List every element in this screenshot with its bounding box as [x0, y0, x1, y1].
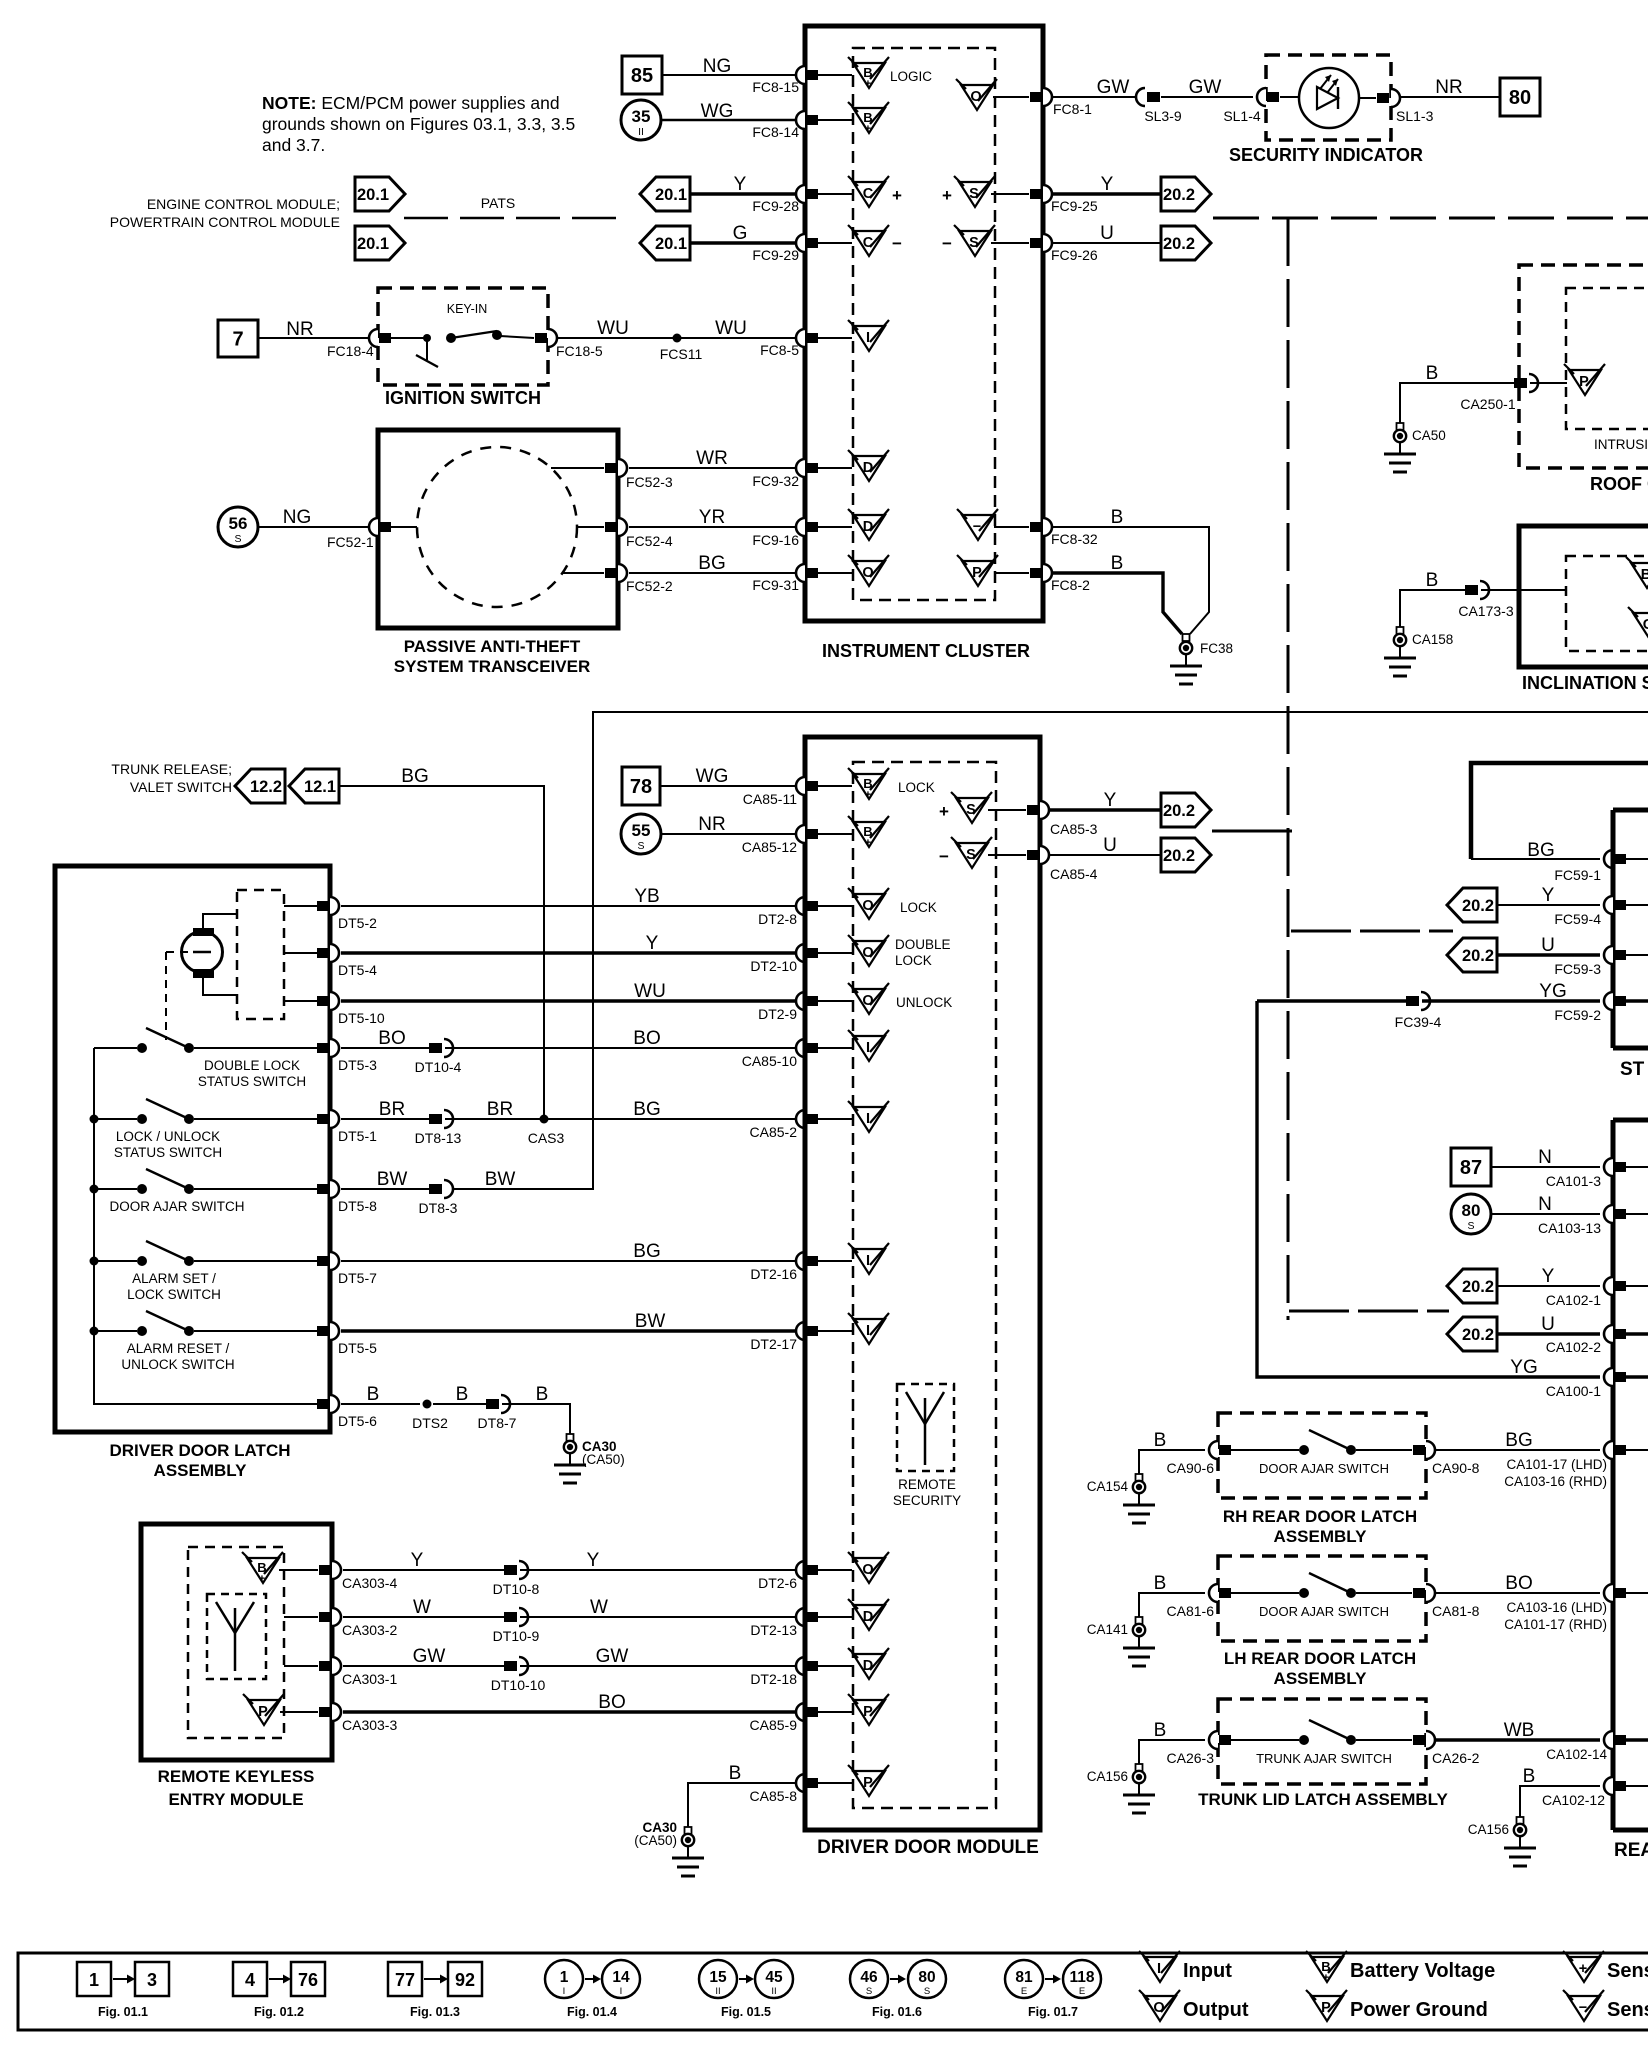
svg-text:BR: BR — [379, 1099, 405, 1120]
symbol S+ to CA85-3 — [956, 798, 988, 823]
wire N 87 to CA101-3 — [1491, 1166, 1600, 1168]
svg-text:76: 76 — [298, 1970, 318, 1990]
svg-text:I: I — [866, 1253, 870, 1269]
svg-text:80: 80 — [1509, 87, 1531, 109]
svg-text:B: B — [1426, 363, 1439, 384]
symbol P power ground — [853, 1771, 885, 1796]
pin CA102-14 — [1604, 1731, 1613, 1749]
switch row DT5-7 — [94, 1260, 137, 1262]
svg-text:DT2-6: DT2-6 — [758, 1575, 797, 1591]
svg-text:DT8-7: DT8-7 — [478, 1415, 517, 1431]
svg-text:B: B — [1154, 1720, 1167, 1741]
wire B to CA26-3 — [1139, 1740, 1205, 1763]
wire BG trunk release to CAS3 — [339, 786, 544, 1119]
svg-text:POWERTRAIN CONTROL MODULE: POWERTRAIN CONTROL MODULE — [110, 214, 340, 230]
wire G to FC9-29 — [690, 241, 796, 244]
legend symbol input — [1144, 1957, 1176, 1982]
svg-text:DOUBLE LOCK: DOUBLE LOCK — [204, 1058, 300, 1073]
half connector DT10-10 — [504, 1661, 517, 1671]
switch row DT5-5 — [94, 1330, 137, 1332]
legend symbol sensor minus — [1568, 1996, 1600, 2021]
svg-text:12.2: 12.2 — [250, 778, 282, 796]
pin FC52-3 — [551, 467, 604, 469]
svg-text:DT2-10: DT2-10 — [750, 958, 797, 974]
svg-text:7: 7 — [232, 329, 243, 351]
symbol S+ sensor to FC9-25 — [959, 182, 991, 207]
flag 20.2 (Y) — [1161, 177, 1211, 211]
transceiver coil dashed circle — [417, 447, 577, 607]
svg-text:REAR: REAR — [1614, 1840, 1648, 1861]
legend fig 01.7 — [1005, 1960, 1043, 1998]
wire B CA102-12 to ground CA156 — [1520, 1786, 1600, 1816]
wire U flag to FC59-3 — [1497, 953, 1600, 956]
pin CA85-2 — [796, 1110, 805, 1128]
svg-text:CA81-8: CA81-8 — [1432, 1603, 1480, 1619]
svg-text:O: O — [862, 993, 873, 1009]
pin CA85-10 — [796, 1039, 805, 1057]
svg-text:I: I — [866, 1323, 870, 1339]
svg-text:FC18-4: FC18-4 — [327, 343, 374, 359]
wire Y FC9-25 to flag 20.2 — [1053, 192, 1161, 195]
pin CA303-1 — [284, 1665, 318, 1667]
svg-text:20.2: 20.2 — [1163, 802, 1195, 820]
pin FC9-29 — [796, 234, 805, 252]
svg-text:Power Ground: Power Ground — [1350, 1999, 1488, 2021]
svg-text:20.1: 20.1 — [357, 235, 389, 253]
pin FC9-28 — [796, 185, 805, 203]
svg-text:NOTE: ECM/PCM power supplies a: NOTE: ECM/PCM power supplies and — [262, 93, 560, 113]
svg-text:DT10-10: DT10-10 — [491, 1677, 546, 1693]
svg-text:CA102-2: CA102-2 — [1546, 1339, 1601, 1355]
connector 85 box — [622, 56, 662, 94]
svg-text:CA85-9: CA85-9 — [750, 1717, 798, 1733]
ground FC38 — [1183, 634, 1190, 641]
svg-text:YR: YR — [699, 507, 725, 528]
svg-text:CA100-1: CA100-1 — [1546, 1383, 1601, 1399]
flag 20.1 to ECM (lower) — [355, 226, 405, 260]
svg-text:GW: GW — [596, 1646, 629, 1667]
symbol O output — [853, 1558, 885, 1583]
svg-text:20.1: 20.1 — [655, 186, 687, 204]
boundary dashed line y1311 — [1289, 1310, 1449, 1313]
flag 12.1 — [289, 769, 339, 803]
pin DT2-9 — [796, 992, 805, 1010]
half connector DT10-8 — [504, 1565, 517, 1575]
half connector DT8-3 — [429, 1184, 442, 1194]
svg-text:DRIVER DOOR MODULE: DRIVER DOOR MODULE — [817, 1837, 1039, 1858]
wire B to CA90-6 — [1139, 1450, 1205, 1473]
svg-text:FC9-16: FC9-16 — [752, 532, 799, 548]
svg-text:INSTRUMENT CLUSTER: INSTRUMENT CLUSTER — [822, 641, 1030, 661]
svg-text:ENGINE CONTROL MODULE;: ENGINE CONTROL MODULE; — [147, 196, 340, 212]
svg-text:and 3.7.: and 3.7. — [262, 135, 325, 155]
wire BO DT5-3 to CA85-10 — [341, 1047, 429, 1049]
ground CA50 — [1399, 416, 1401, 423]
svg-text:DT2-16: DT2-16 — [750, 1266, 797, 1282]
symbol battery voltage B+ (logic) — [853, 63, 885, 88]
half connector CA250-1 — [1514, 378, 1527, 388]
svg-text:20.1: 20.1 — [357, 186, 389, 204]
pin FC59-4 — [1604, 896, 1613, 914]
svg-text:+: + — [865, 837, 871, 849]
symbol O output DOUBLE LOCK — [853, 941, 885, 966]
rke inner dashed box — [188, 1547, 284, 1738]
svg-text:FC9-32: FC9-32 — [752, 473, 799, 489]
legend fig 01.4 — [545, 1960, 583, 1998]
pin FC9-31 — [796, 564, 805, 582]
svg-text:DOUBLE: DOUBLE — [895, 937, 951, 952]
svg-text:FC8-15: FC8-15 — [752, 79, 799, 95]
wire Y flag to FC59-4 — [1497, 904, 1600, 906]
module INSTRUMENT CLUSTER outline — [805, 26, 1043, 621]
svg-text:DOOR AJAR SWITCH: DOOR AJAR SWITCH — [1259, 1604, 1389, 1619]
svg-text:S: S — [1467, 1220, 1474, 1232]
boundary dashed line horizontal top right — [1213, 217, 1648, 220]
svg-text:SECURITY INDICATOR: SECURITY INDICATOR — [1229, 145, 1423, 165]
rke antenna symbol — [234, 1608, 237, 1671]
ddm inner dashed box — [853, 762, 996, 1808]
svg-text:FC52-4: FC52-4 — [626, 533, 673, 549]
flag 20.2 to CA102-1 — [1447, 1269, 1497, 1303]
svg-text:CA156: CA156 — [1087, 1769, 1128, 1784]
svg-text:TRUNK LID LATCH ASSEMBLY: TRUNK LID LATCH ASSEMBLY — [1198, 1790, 1448, 1809]
svg-text:20.2: 20.2 — [1163, 235, 1195, 253]
svg-text:I: I — [866, 330, 870, 346]
svg-text:E: E — [1021, 1986, 1027, 1997]
svg-text:II: II — [715, 1986, 720, 1997]
svg-text:N: N — [1538, 1194, 1552, 1215]
svg-text:DT5-6: DT5-6 — [338, 1413, 377, 1429]
pin CA102-12 — [1604, 1777, 1613, 1795]
svg-text:CA85-10: CA85-10 — [742, 1053, 797, 1069]
svg-text:CA85-4: CA85-4 — [1050, 866, 1098, 882]
svg-text:B: B — [536, 1384, 549, 1405]
svg-text:CA85-12: CA85-12 — [742, 839, 797, 855]
svg-text:FC59-1: FC59-1 — [1554, 867, 1601, 883]
wire WU from FC18-5 to FC8-5 — [558, 337, 796, 339]
svg-text:WG: WG — [696, 766, 729, 787]
flag 20.1 from ECM (lower) — [640, 226, 690, 260]
svg-text:RH REAR DOOR LATCH: RH REAR DOOR LATCH — [1223, 1507, 1417, 1526]
svg-text:Y: Y — [646, 933, 659, 954]
component LH REAR DOOR LATCH ASSEMBLY dashed box — [1218, 1556, 1426, 1641]
svg-text:GW: GW — [413, 1646, 446, 1667]
pin DT5-2 — [317, 901, 329, 911]
wire NG from 56 to FC52-1 — [258, 526, 370, 528]
svg-text:S: S — [637, 840, 644, 852]
wire YR FC52-4 to FC9-16 — [629, 526, 796, 528]
svg-text:BO: BO — [1505, 1573, 1532, 1594]
wire BO CA81-8 to module — [1436, 1592, 1600, 1594]
flag 20.1 from ECM (upper) — [640, 177, 690, 211]
wire B CA85-8 to ground CA30 — [688, 1783, 796, 1827]
pin FC8-15 — [796, 66, 805, 84]
legend fig 01.5 — [699, 1960, 737, 1998]
svg-text:NG: NG — [703, 56, 732, 77]
svg-text:DOOR AJAR SWITCH: DOOR AJAR SWITCH — [1259, 1461, 1389, 1476]
symbol battery voltage B+ — [853, 108, 885, 133]
legend fig 01.6 — [850, 1960, 888, 1998]
svg-text:REMOTE: REMOTE — [898, 1477, 956, 1492]
svg-text:DT2-18: DT2-18 — [750, 1671, 797, 1687]
svg-text:FC9-29: FC9-29 — [752, 247, 799, 263]
module ST (steering, clipped) outline — [1613, 808, 1648, 813]
svg-text:FC9-28: FC9-28 — [752, 198, 799, 214]
module DRIVER DOOR LATCH ASSEMBLY box — [55, 866, 330, 1432]
svg-text:CA154: CA154 — [1087, 1479, 1129, 1494]
svg-text:1: 1 — [89, 1970, 99, 1990]
wire GW CA303-1 to DT2-18 — [343, 1665, 504, 1667]
wire NG from 85 to FC8-15 — [662, 74, 796, 76]
svg-text:GW: GW — [1097, 77, 1130, 98]
svg-text:80: 80 — [1462, 1201, 1481, 1220]
legend symbol output — [1144, 1996, 1176, 2021]
svg-text:INCLINATION SENSOR: INCLINATION SENSOR — [1522, 673, 1648, 693]
svg-text:−: − — [942, 234, 952, 253]
svg-text:Y: Y — [734, 174, 747, 195]
svg-text:CA90-8: CA90-8 — [1432, 1460, 1480, 1476]
pin DT2-6 — [796, 1561, 805, 1579]
security indicator LED lamp — [1280, 96, 1299, 98]
svg-text:BG: BG — [633, 1241, 660, 1262]
svg-text:I: I — [563, 1986, 566, 1997]
pin DT2-18 — [796, 1657, 805, 1675]
svg-text:B: B — [1641, 567, 1648, 583]
svg-text:B: B — [1111, 507, 1124, 528]
svg-text:CA85-11: CA85-11 — [743, 791, 797, 807]
pin FC8-5 — [796, 329, 805, 347]
svg-text:YG: YG — [1510, 1357, 1537, 1378]
svg-text:CA303-3: CA303-3 — [342, 1717, 397, 1733]
svg-text:grounds shown on Figures 03.1,: grounds shown on Figures 03.1, 3.3, 3.5 — [262, 114, 575, 134]
svg-text:ASSEMBLY: ASSEMBLY — [154, 1461, 248, 1480]
connector 87 box — [1451, 1148, 1491, 1186]
svg-text:S: S — [966, 802, 976, 818]
svg-text:FC9-31: FC9-31 — [752, 577, 799, 593]
svg-text:35: 35 — [632, 107, 651, 126]
svg-text:IGNITION SWITCH: IGNITION SWITCH — [385, 388, 541, 408]
wire to DT5-4 — [284, 952, 317, 954]
svg-text:N: N — [1538, 1147, 1552, 1168]
half connector DT10-4 — [429, 1043, 442, 1053]
svg-text:O: O — [862, 1562, 873, 1578]
svg-text:P: P — [1321, 2000, 1331, 2016]
pin DT2-17 — [796, 1322, 805, 1340]
svg-text:FC8-32: FC8-32 — [1051, 531, 1098, 547]
pin FC59-2 — [1604, 992, 1613, 1010]
svg-text:CA85-2: CA85-2 — [750, 1124, 798, 1140]
pin FC52-4 — [577, 526, 604, 528]
symbol C- sensor — [853, 231, 885, 256]
wire BW DT5-8 to DT8-3 — [341, 1188, 429, 1190]
component RH REAR DOOR LATCH ASSEMBLY dashed box — [1218, 1413, 1426, 1498]
svg-text:1: 1 — [560, 1969, 569, 1986]
wire B DT5-6 to ground CA30 — [341, 1403, 420, 1405]
wire Y flag to CA102-1 — [1497, 1285, 1600, 1287]
svg-text:Y: Y — [587, 1550, 600, 1571]
svg-text:DT8-3: DT8-3 — [419, 1200, 458, 1216]
pin CA81-6 — [1209, 1584, 1218, 1602]
svg-text:WU: WU — [597, 318, 629, 339]
instrument cluster inner dashed box — [853, 48, 995, 600]
pin DT5-10 — [317, 996, 329, 1006]
symbol battery voltage B+ (rke) — [247, 1558, 279, 1583]
pin CA303-2 — [284, 1616, 318, 1618]
pin DT2-16 — [796, 1252, 805, 1270]
svg-text:Fig. 01.7: Fig. 01.7 — [1028, 2005, 1078, 2019]
ddm remote security antenna dashed box — [897, 1384, 954, 1471]
svg-text:Fig. 01.2: Fig. 01.2 — [254, 2005, 304, 2019]
wire YG FC59-2 to CA100-1 — [1257, 1001, 1600, 1377]
pin CA102-2 — [1604, 1325, 1613, 1343]
svg-text:BG: BG — [1505, 1430, 1532, 1451]
switch row DT5-1 — [94, 1118, 137, 1120]
svg-text:REMOTE KEYLESS: REMOTE KEYLESS — [158, 1767, 315, 1786]
connector 7 box — [218, 320, 258, 357]
svg-text:W: W — [413, 1597, 431, 1618]
svg-text:LH REAR DOOR LATCH: LH REAR DOOR LATCH — [1224, 1649, 1416, 1668]
svg-text:CA303-1: CA303-1 — [342, 1671, 397, 1687]
svg-text:SL1-4: SL1-4 — [1223, 108, 1261, 124]
wire PATS dashed link — [404, 217, 622, 220]
pin CA85-12 — [796, 825, 805, 843]
svg-text:U: U — [1541, 1314, 1555, 1335]
svg-text:U: U — [1100, 223, 1114, 244]
svg-text:CA102-12: CA102-12 — [1542, 1792, 1605, 1808]
svg-text:56: 56 — [229, 514, 248, 533]
pin CA100-1 — [1604, 1368, 1613, 1386]
svg-text:W: W — [590, 1597, 608, 1618]
svg-text:20.2: 20.2 — [1462, 1278, 1494, 1296]
svg-text:FC9-26: FC9-26 — [1051, 247, 1098, 263]
svg-text:CA303-4: CA303-4 — [342, 1575, 397, 1591]
svg-text:II: II — [771, 1986, 776, 1997]
svg-text:Battery Voltage: Battery Voltage — [1350, 1960, 1495, 1982]
wire NR SL1-3 to connector 80 — [1400, 96, 1500, 98]
svg-text:20.2: 20.2 — [1462, 897, 1494, 915]
svg-text:DT5-3: DT5-3 — [338, 1057, 377, 1073]
svg-text:FC39-4: FC39-4 — [1395, 1014, 1442, 1030]
svg-text:LOCK: LOCK — [900, 900, 937, 915]
svg-text:FC52-2: FC52-2 — [626, 578, 673, 594]
inclination sensor inner dashed box — [1566, 556, 1648, 651]
lock actuator dashed box — [237, 890, 284, 1019]
component IGNITION SWITCH dashed box — [378, 288, 548, 385]
svg-text:DT5-2: DT5-2 — [338, 915, 377, 931]
symbol battery voltage B+ LOCK — [853, 774, 885, 799]
svg-text:(CA50): (CA50) — [582, 1452, 625, 1467]
svg-text:CA50: CA50 — [1412, 428, 1446, 443]
pin SL1-3 — [1377, 93, 1389, 103]
svg-text:CA85-3: CA85-3 — [1050, 821, 1098, 837]
symbol S- to CA85-4 — [956, 843, 988, 868]
symbol minus to FC8-32 — [962, 515, 994, 540]
svg-text:DT2-13: DT2-13 — [750, 1622, 797, 1638]
wire to DT5-10 — [284, 1000, 317, 1002]
svg-text:S: S — [234, 533, 241, 545]
svg-text:P: P — [863, 1775, 873, 1791]
svg-text:15: 15 — [709, 1969, 727, 1986]
svg-text:BG: BG — [633, 1099, 660, 1120]
svg-text:YG: YG — [1539, 981, 1566, 1002]
ground CA156 right — [1519, 1810, 1521, 1817]
svg-text:+: + — [865, 789, 871, 801]
svg-text:UNLOCK SWITCH: UNLOCK SWITCH — [121, 1357, 234, 1372]
svg-text:45: 45 — [765, 1969, 783, 1986]
svg-text:Y: Y — [411, 1550, 424, 1571]
svg-text:CA85-8: CA85-8 — [750, 1788, 798, 1804]
switch row DT5-8 — [94, 1188, 137, 1190]
svg-text:BO: BO — [378, 1028, 405, 1049]
svg-text:LOGIC: LOGIC — [890, 69, 932, 84]
wire WG 78 to CA85-11 — [660, 785, 796, 787]
svg-text:+: + — [942, 186, 952, 205]
svg-text:I: I — [866, 1111, 870, 1127]
svg-text:DT5-10: DT5-10 — [338, 1010, 385, 1026]
svg-text:LOCK: LOCK — [895, 953, 932, 968]
ground CA154 — [1138, 1467, 1140, 1474]
svg-text:P: P — [972, 565, 982, 581]
wire NR 55 to CA85-12 — [661, 833, 796, 835]
module REAR (clipped) outline — [1613, 1118, 1648, 1123]
svg-text:Fig. 01.3: Fig. 01.3 — [410, 2005, 460, 2019]
symbol C+ sensor — [853, 182, 885, 207]
roof console inner dashed box — [1566, 288, 1648, 429]
svg-text:WB: WB — [1504, 1720, 1535, 1741]
wire Y DT5-4 to DT2-10 — [341, 951, 796, 954]
svg-text:PASSIVE ANTI-THEFT: PASSIVE ANTI-THEFT — [404, 637, 581, 656]
svg-text:(CA50): (CA50) — [634, 1833, 677, 1848]
svg-text:SECURITY: SECURITY — [893, 1493, 961, 1508]
wire BW door-ajar routed to right modules — [446, 712, 1648, 1189]
symbol triangle (inclination, clipped) — [1631, 563, 1648, 588]
flag 20.2 (Y lower) — [1161, 793, 1211, 827]
svg-text:D: D — [863, 519, 873, 535]
svg-text:ST: ST — [1620, 1059, 1645, 1080]
svg-text:FC38: FC38 — [1200, 641, 1233, 656]
wire WB CA26-2 to module — [1436, 1738, 1600, 1741]
symbol P power ground (roof console) — [1569, 370, 1601, 395]
svg-text:STATUS SWITCH: STATUS SWITCH — [114, 1145, 222, 1160]
pin CA102-1 — [1604, 1277, 1613, 1295]
svg-text:ENTRY MODULE: ENTRY MODULE — [168, 1790, 303, 1809]
svg-text:B: B — [367, 1384, 380, 1405]
symbol I input — [853, 1107, 885, 1132]
svg-text:Fig. 01.4: Fig. 01.4 — [567, 2005, 617, 2019]
svg-text:U: U — [1103, 835, 1117, 856]
svg-text:LOCK: LOCK — [898, 780, 935, 795]
svg-text:+: + — [865, 123, 871, 135]
component TRUNK LID LATCH ASSEMBLY dashed box — [1218, 1699, 1426, 1784]
wire GW SL3-9 to SL1-4 — [1161, 96, 1253, 98]
wire U CA85-4 to flag 20.2 — [1050, 854, 1161, 856]
wire BR DT5-1 to CAS3 to CA85-2 — [341, 1118, 429, 1120]
component SECURITY INDICATOR dashed box — [1266, 55, 1391, 140]
wire WR FC52-3 to FC9-32 — [629, 467, 796, 469]
pin FC18-5 — [535, 333, 547, 343]
svg-text:SYSTEM TRANSCEIVER: SYSTEM TRANSCEIVER — [394, 657, 590, 676]
svg-text:CA101-17 (RHD): CA101-17 (RHD) — [1504, 1617, 1607, 1632]
svg-text:U: U — [1541, 935, 1555, 956]
pin CA303-4 — [279, 1569, 318, 1571]
module PASSIVE ANTI-THEFT SYSTEM TRANSCEIVER box — [378, 430, 618, 628]
svg-text:P: P — [1579, 374, 1589, 390]
symbol I input — [853, 1319, 885, 1344]
svg-text:ASSEMBLY: ASSEMBLY — [1274, 1669, 1368, 1688]
svg-text:BR: BR — [487, 1099, 513, 1120]
pin FC8-1 — [1043, 88, 1052, 106]
svg-text:DT2-17: DT2-17 — [750, 1336, 797, 1352]
